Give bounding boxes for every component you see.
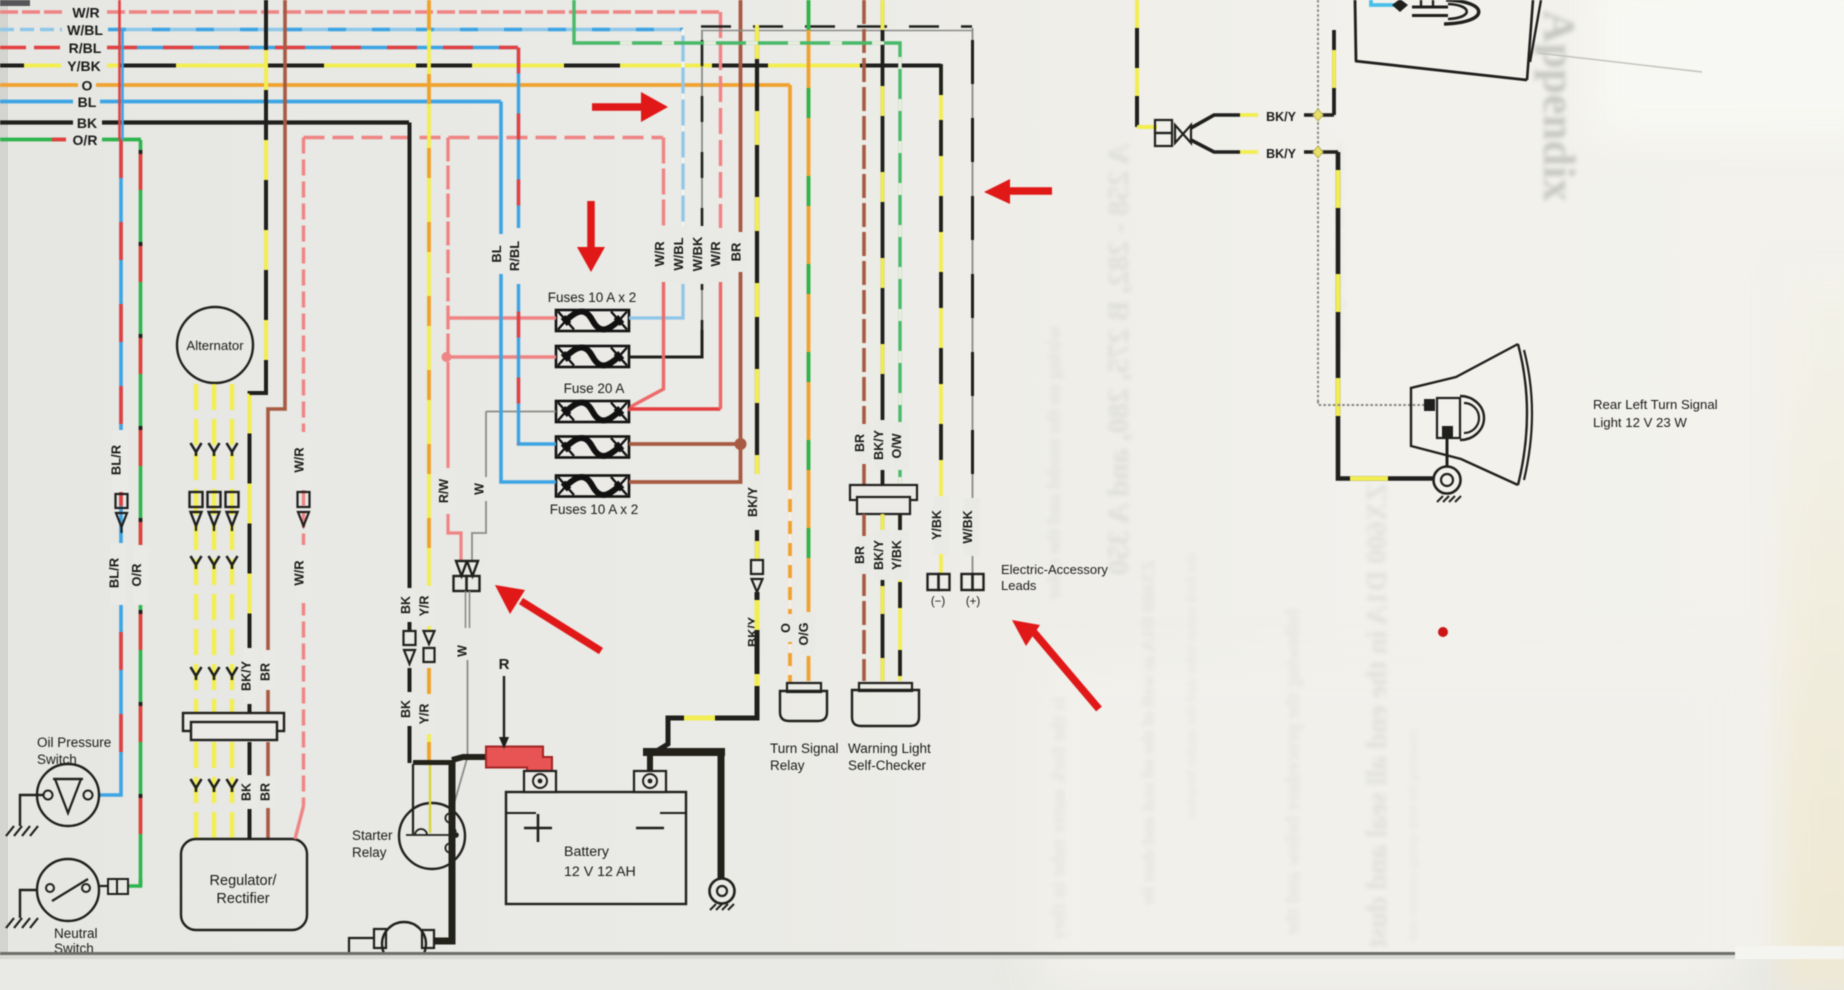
- label BL/R lower: [107, 543, 128, 605]
- neutral switch label: [54, 926, 98, 956]
- starter relay label: [352, 828, 393, 860]
- svg-text:Warning Light: Warning Light: [848, 741, 931, 756]
- arrow on phase Y3 at row 2: [227, 556, 238, 569]
- label R/BL vertical: [507, 228, 527, 284]
- wire R feed to fuse F1: [448, 316, 556, 319]
- svg-text:Y/R: Y/R: [418, 596, 432, 617]
- label W/R lower (left): [292, 545, 313, 603]
- ground circle (rear turn signal): [1434, 467, 1462, 503]
- svg-text:BL/R: BL/R: [107, 557, 122, 588]
- label BK lower: [399, 692, 417, 726]
- svg-text:W: W: [456, 645, 470, 657]
- svg-text:BK/Y: BK/Y: [746, 486, 760, 517]
- arrow on phase Y1 at row 2: [191, 556, 202, 569]
- alternator U1: [177, 307, 253, 383]
- rear left turn signal lamp housing: [1411, 344, 1532, 485]
- wire O to turn signal relay: [788, 85, 792, 683]
- svg-text:12 V 12 AH: 12 V 12 AH: [564, 864, 636, 880]
- arrow on phase Y3 at row 3: [227, 667, 238, 680]
- svg-text:W/R: W/R: [708, 241, 723, 267]
- wire BR from top to alternator connector: [268, 0, 285, 712]
- label BK/Y trunk lower: [746, 604, 765, 660]
- connector on BL/R: [116, 494, 128, 533]
- label W/R vertical no2: [708, 228, 728, 282]
- svg-text:W/BL: W/BL: [67, 22, 103, 38]
- wire BK/Y lower branch: [1191, 140, 1338, 152]
- svg-text:Relay: Relay: [352, 845, 387, 860]
- svg-text:BK: BK: [240, 783, 254, 801]
- wire Y/BK to accessory minus: [915, 64, 941, 573]
- svg-text:Fuses 10 A x 2: Fuses 10 A x 2: [550, 502, 639, 517]
- label W/BL bus: [67, 22, 103, 38]
- label BK/Y trunk upper: [746, 474, 765, 530]
- svg-text:W/R: W/R: [292, 560, 307, 586]
- svg-text:Light 12 V 23 W: Light 12 V 23 W: [1593, 415, 1687, 430]
- label BK/Y upper branch: [1266, 110, 1297, 124]
- svg-text:BK: BK: [399, 700, 413, 718]
- svg-text:Relay: Relay: [770, 758, 805, 773]
- svg-text:Leads: Leads: [1001, 578, 1037, 593]
- connector on phase Y1: [190, 492, 203, 531]
- warning light self-checker box: [852, 683, 919, 726]
- connector neutral switch: [99, 879, 128, 894]
- svg-text:Rectifier: Rectifier: [216, 891, 269, 907]
- label BK: [399, 588, 417, 622]
- arrow on phase Y2 at row 3: [209, 667, 220, 680]
- svg-text:Rear Left Turn Signal: Rear Left Turn Signal: [1593, 397, 1718, 412]
- wire W/BL tail stub: [1371, 0, 1408, 12]
- wire BK/Y tail vertical: [1135, 0, 1139, 127]
- wire BK/Y warning lower: [881, 514, 885, 681]
- wire BK vertical to starter circuit: [408, 123, 412, 764]
- arrow on phase Y3 at row 4: [227, 779, 238, 792]
- connector on phase Y3: [226, 492, 239, 531]
- fuse F3 (20A): [556, 401, 629, 422]
- label BK bus: [77, 115, 97, 131]
- wire BR warning lower: [862, 514, 866, 681]
- label BL/R upper: [109, 430, 130, 492]
- wire BR vertical to fuse junction: [739, 0, 743, 444]
- label W (upper): [473, 477, 490, 501]
- fuse F1 (10A): [556, 310, 629, 331]
- label BK below connector: [240, 775, 259, 809]
- svg-text:BK: BK: [399, 596, 413, 614]
- wire W/R to regulator: [295, 138, 304, 840]
- svg-text:BR: BR: [853, 546, 867, 564]
- annotation arrow right: [592, 92, 668, 122]
- label Y/R: [418, 586, 437, 626]
- wire O/G to turn signal relay: [807, 0, 811, 681]
- wire W/R no2 vertical: [719, 12, 722, 409]
- wire BL bus horizontal: [0, 100, 501, 104]
- wire BR below connector to regulator: [266, 742, 270, 839]
- label Y/BK bus: [67, 58, 100, 74]
- label BK/Y above connector: [240, 648, 259, 704]
- wire BK/Y trunk to battery minus: [655, 592, 757, 752]
- arrow on phase Y2 at row 4: [209, 779, 220, 792]
- label W/R upper (left): [292, 432, 313, 490]
- connector on BK: [404, 631, 416, 664]
- label BL bus: [78, 94, 97, 110]
- wire BL vertical to fuse F5: [501, 102, 556, 483]
- label Fuses 10 A x 2 (upper): [548, 290, 637, 305]
- wire Y/BK warning lower: [898, 514, 902, 681]
- warning connector: [850, 485, 917, 514]
- connector bowtie (tail): [1137, 120, 1191, 146]
- svg-text:(−): (−): [931, 596, 946, 608]
- wire W to starter relay: [450, 660, 468, 813]
- oil pressure switch: [37, 764, 99, 826]
- node R junction: [442, 352, 452, 362]
- svg-text:O/R: O/R: [129, 563, 144, 587]
- label W/BK (accessory): [961, 498, 980, 556]
- svg-text:Fuses 10 A x 2: Fuses 10 A x 2: [548, 290, 637, 305]
- svg-text:O: O: [779, 623, 793, 633]
- wire BL/R vertical (red upper): [118, 0, 121, 140]
- label O bus: [82, 78, 93, 94]
- svg-text:BR: BR: [853, 434, 867, 452]
- wire BR to fuse F4 right: [629, 442, 741, 446]
- label BK/Y (warning upper): [872, 420, 891, 470]
- connector accessory plus: [962, 574, 984, 590]
- svg-text:Alternator: Alternator: [186, 338, 244, 353]
- wire W/BK top bridge: [701, 30, 972, 32]
- wire R/BL vertical to fuse F4: [519, 48, 557, 445]
- starter relay: [399, 764, 465, 869]
- svg-text:R: R: [499, 656, 510, 673]
- wire R/W from fuse rail down: [448, 138, 461, 562]
- ground (neutral switch): [6, 918, 38, 928]
- svg-text:O: O: [82, 78, 93, 94]
- wire BK below connector to regulator: [248, 742, 252, 839]
- wire BK/Y trunk vertical: [755, 25, 759, 560]
- svg-text:Y/BK: Y/BK: [890, 540, 904, 570]
- node diamond upper: [1313, 109, 1323, 121]
- svg-text:W/BK: W/BK: [690, 236, 705, 271]
- svg-text:BK/Y: BK/Y: [872, 539, 886, 570]
- svg-text:BK/Y: BK/Y: [1266, 110, 1297, 124]
- wire alternator phase Y2: [212, 384, 216, 838]
- wire BK bus horizontal: [0, 120, 409, 124]
- label Y/BK (accessory): [930, 496, 949, 554]
- wire BK/Y to rear turn signal ground: [1338, 152, 1433, 479]
- label O/R lower: [129, 545, 149, 605]
- connector on phase Y2: [208, 492, 221, 531]
- svg-text:O/R: O/R: [73, 132, 98, 148]
- label O/W (warning upper): [890, 422, 909, 470]
- connector accessory minus: [928, 574, 950, 590]
- wire O bus horizontal: [0, 83, 790, 87]
- starter motor: [374, 922, 434, 966]
- svg-text:W/BL: W/BL: [671, 237, 686, 270]
- svg-text:R/W: R/W: [437, 479, 451, 504]
- wire BK/Y from top to alternator connector: [250, 0, 267, 712]
- wire R/BL bus horizontal: [0, 46, 518, 50]
- svg-text:R/BL: R/BL: [507, 241, 522, 271]
- arrow on phase Y3 at row 1: [227, 443, 238, 456]
- annotation arrow left: [984, 179, 1052, 204]
- svg-text:W/R: W/R: [652, 241, 667, 267]
- wire BR to warning connector: [862, 0, 866, 485]
- tail light housing: [1355, 0, 1541, 80]
- label W/R vertical no1: [652, 228, 672, 282]
- connector on W/R: [298, 492, 310, 526]
- fuse F5 (10A): [556, 476, 629, 497]
- wire battery minus to frame ground: [643, 752, 725, 879]
- wire thick battery plus branch: [413, 757, 487, 763]
- label BR (warning upper): [853, 424, 871, 462]
- wire W/R bus horizontal: [0, 10, 720, 14]
- regulator/rectifier: [181, 839, 307, 930]
- svg-text:BL: BL: [489, 245, 504, 262]
- wire fuse F3 right to W/R no2: [629, 407, 721, 410]
- svg-text:Y/BK: Y/BK: [930, 510, 944, 540]
- label W/BL vertical: [671, 226, 691, 284]
- label Electric-Accessory Leads: [1001, 562, 1108, 593]
- wire Y/BK bus horizontal: [0, 64, 941, 68]
- wire oil pressure switch to ground: [20, 795, 43, 826]
- wire starter motor lead: [349, 938, 374, 959]
- svg-text:W/BK: W/BK: [961, 510, 975, 543]
- svg-text:BK: BK: [77, 115, 97, 131]
- label BL vertical: [489, 234, 508, 274]
- label (+): [966, 596, 981, 608]
- wire W/R sub-bus horizontal: [304, 136, 664, 139]
- label Fuse 20 A: [564, 381, 625, 396]
- label BR below connector: [259, 776, 277, 808]
- arrow on phase Y2 at row 2: [209, 556, 220, 569]
- svg-text:Starter: Starter: [352, 828, 393, 843]
- wire alternator phase Y3: [230, 384, 234, 838]
- annotation arrow down: [577, 201, 605, 272]
- battery terminal minus: [634, 771, 666, 792]
- label BK/Y lower branch: [1266, 147, 1297, 161]
- wire BR to fuse F5 right: [629, 444, 741, 482]
- wire alternator phase Y1: [194, 384, 198, 838]
- label BR vertical: [729, 232, 749, 272]
- alternator multi-pin connector: [183, 713, 284, 740]
- label BR (warning lower): [853, 536, 871, 574]
- wire BK/Y upper branch to lamp: [1191, 115, 1334, 128]
- arrow on phase Y1 at row 4: [191, 779, 202, 792]
- svg-text:(+): (+): [966, 596, 981, 608]
- svg-text:BR: BR: [259, 663, 273, 681]
- annotation red dot: [1438, 627, 1448, 637]
- battery: [506, 792, 686, 904]
- svg-text:Oil Pressure: Oil Pressure: [37, 735, 111, 750]
- arrow on phase Y2 at row 1: [209, 443, 220, 456]
- svg-text:BR: BR: [729, 242, 744, 261]
- wire O/R vertical to neutral switch: [128, 140, 141, 886]
- label Y/R lower: [418, 694, 437, 734]
- paper edge diagonal: [1538, 53, 1702, 72]
- svg-text:Fuse 20 A: Fuse 20 A: [564, 381, 625, 396]
- battery terminal plus: [524, 771, 556, 792]
- wire W from fuse 20A down: [472, 412, 486, 562]
- wire chassis dotted line: [1318, 0, 1427, 405]
- wire bulb to ground: [1446, 438, 1449, 466]
- svg-text:Turn Signal: Turn Signal: [770, 741, 839, 756]
- label R/W: [437, 468, 456, 514]
- tail light socket: [1412, 0, 1479, 24]
- wire bulb to chassis dotted: [1427, 404, 1435, 406]
- label BK/Y (warning lower): [872, 530, 891, 580]
- label O (relay): [779, 614, 797, 642]
- svg-text:Y/BK: Y/BK: [67, 58, 100, 74]
- turn signal relay: [780, 683, 827, 721]
- annotation arrow to connector: [495, 585, 601, 651]
- svg-text:Regulator/: Regulator/: [210, 873, 278, 889]
- svg-text:W: W: [473, 483, 487, 495]
- svg-text:O/W: O/W: [890, 433, 904, 458]
- label R with arrow: [499, 656, 510, 749]
- arrow on phase Y1 at row 1: [191, 443, 202, 456]
- label Y/BK (warning lower): [890, 530, 909, 580]
- svg-text:O/G: O/G: [797, 623, 811, 646]
- wire Y/R vertical to starter relay: [427, 0, 431, 762]
- label Warning Light Self-Checker: [848, 741, 931, 773]
- wire W/BL to fuse F1 right: [629, 30, 683, 319]
- svg-text:BK/Y: BK/Y: [1266, 147, 1297, 161]
- oil pressure switch label: [37, 735, 111, 767]
- wire R feed to fuse F2: [447, 355, 557, 358]
- ground (oil pressure switch): [6, 826, 38, 836]
- label W/R bus: [72, 5, 99, 21]
- node BR junction: [735, 438, 747, 450]
- label (-): [931, 596, 946, 608]
- connector on BK/Y trunk: [751, 560, 763, 592]
- svg-text:BR: BR: [259, 783, 273, 801]
- wire O/W (green) to warning connector: [574, 0, 900, 485]
- wire BK/Y to warning connector: [881, 0, 885, 485]
- label Fuses 10 A x 2 (lower): [550, 502, 639, 517]
- wire W pair below connector: [466, 591, 470, 628]
- label Rear Left Turn Signal Light: [1593, 397, 1718, 430]
- wire BL/R vertical to oil pressure switch: [99, 140, 121, 795]
- svg-text:Electric-Accessory: Electric-Accessory: [1001, 562, 1108, 577]
- label O/G: [797, 612, 816, 656]
- svg-text:BL/R: BL/R: [109, 444, 124, 475]
- svg-text:W/R: W/R: [292, 447, 307, 473]
- wire O/R bus horizontal: [0, 138, 141, 142]
- connector twin diode pack: [454, 561, 480, 591]
- svg-text:Self-Checker: Self-Checker: [848, 758, 927, 773]
- rear turn signal bulb: [1424, 396, 1484, 440]
- svg-text:Battery: Battery: [564, 844, 610, 860]
- svg-text:R/BL: R/BL: [69, 40, 102, 56]
- wire neutral switch to ground: [20, 890, 37, 918]
- label R/BL bus: [69, 40, 102, 56]
- neutral switch: [37, 859, 99, 921]
- svg-text:BK/Y: BK/Y: [240, 660, 254, 691]
- battery positive cable (red block): [486, 747, 552, 782]
- wire thick starter relay to motor: [434, 760, 452, 941]
- wire BL/R vertical (blue upper): [121, 29, 124, 140]
- wire W/BK to fuse F2 right: [629, 30, 702, 357]
- wire W/BL bus horizontal: [0, 28, 683, 32]
- wire W/R no1 to fuse F3 right: [629, 138, 664, 412]
- svg-text:BK/Y: BK/Y: [872, 429, 886, 460]
- svg-text:Neutral: Neutral: [54, 926, 98, 941]
- label W/BK vertical (fuse): [690, 226, 710, 284]
- wire BK/Y lamp riser: [1332, 30, 1336, 115]
- node diamond lower: [1313, 146, 1323, 158]
- annotation arrow to accessory leads: [1012, 620, 1099, 709]
- fuse F2 (10A): [556, 346, 629, 367]
- label W (lower): [456, 645, 470, 657]
- ground circle (battery): [710, 879, 735, 911]
- label Turn Signal Relay: [770, 741, 839, 773]
- arrow on phase Y1 at row 3: [191, 667, 202, 680]
- svg-text:Y/R: Y/R: [418, 704, 432, 725]
- wire W/BK to accessory plus: [972, 28, 974, 573]
- wire BK/Y top bridge: [701, 25, 972, 28]
- wire W to fuse F3 left: [486, 411, 556, 413]
- label BR above connector: [259, 650, 277, 690]
- svg-text:BL: BL: [78, 94, 97, 110]
- svg-text:W/R: W/R: [72, 5, 99, 21]
- fuse F4 (10A): [556, 437, 629, 458]
- connector on Y/R: [424, 631, 435, 662]
- label O/R bus: [73, 132, 98, 148]
